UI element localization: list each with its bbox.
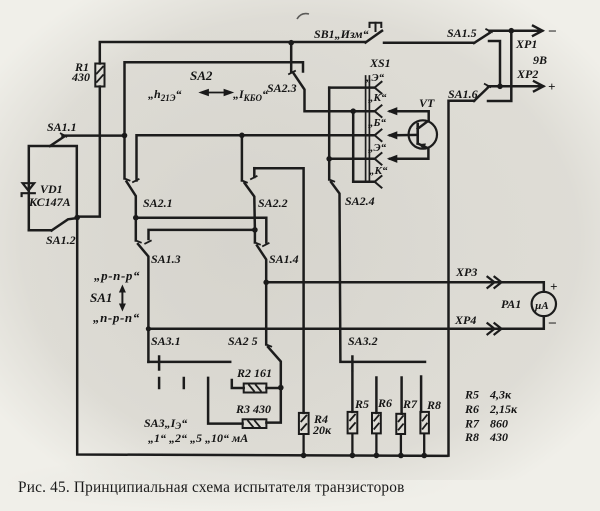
svg-text:R2 161: R2 161 bbox=[236, 366, 272, 380]
svg-text:ХР1: ХР1 bbox=[515, 37, 537, 51]
svg-text:R7: R7 bbox=[464, 417, 480, 431]
svg-text:XS1: XS1 bbox=[369, 56, 391, 70]
svg-text:SA1.4: SA1.4 bbox=[269, 252, 299, 266]
svg-text:SA3.1: SA3.1 bbox=[151, 334, 181, 348]
svg-text:„п-р-п“: „п-р-п“ bbox=[93, 310, 140, 325]
svg-text:R3 430: R3 430 bbox=[235, 402, 271, 416]
svg-text:SA3„IЭ“: SA3„IЭ“ bbox=[144, 416, 187, 431]
svg-text:„1“ „2“ „5 „10“ мА: „1“ „2“ „5 „10“ мА bbox=[148, 431, 248, 445]
svg-text:SA2.3: SA2.3 bbox=[267, 81, 297, 95]
svg-text:R8: R8 bbox=[426, 398, 441, 412]
svg-text:„р-п-р“: „р-п-р“ bbox=[94, 268, 140, 283]
svg-text:4,3к: 4,3к bbox=[489, 388, 512, 402]
svg-text:µА: µА bbox=[534, 300, 549, 312]
svg-text:R6: R6 bbox=[377, 396, 392, 410]
svg-text:SA1.1: SA1.1 bbox=[47, 120, 77, 134]
svg-text:КС147А: КС147А bbox=[28, 195, 71, 209]
svg-text:VD1: VD1 bbox=[40, 182, 63, 196]
svg-text:SA1.3: SA1.3 bbox=[151, 252, 181, 266]
svg-text:–: – bbox=[548, 23, 556, 38]
svg-text:860: 860 bbox=[490, 417, 508, 431]
svg-text:SA1.5: SA1.5 bbox=[447, 26, 477, 40]
svg-text:SA2.4: SA2.4 bbox=[345, 194, 375, 208]
svg-text:„Э“: „Э“ bbox=[368, 142, 387, 154]
svg-text:ХР2: ХР2 bbox=[516, 67, 538, 81]
svg-text:9В: 9В bbox=[533, 53, 547, 67]
svg-text:Рис. 45. Принципиальная схема: Рис. 45. Принципиальная схема испытателя… bbox=[18, 479, 405, 496]
svg-text:2,15к: 2,15к bbox=[489, 402, 518, 416]
svg-text:ХР3: ХР3 bbox=[455, 265, 477, 279]
svg-text:ХР4: ХР4 bbox=[454, 313, 476, 327]
svg-text:R6: R6 bbox=[464, 402, 479, 416]
svg-text:SA2.1: SA2.1 bbox=[143, 196, 173, 210]
svg-text:„Б“: „Б“ bbox=[368, 117, 386, 129]
svg-text:SA2.2: SA2.2 bbox=[258, 196, 288, 210]
svg-text:SA3.2: SA3.2 bbox=[348, 334, 378, 348]
svg-text:–: – bbox=[548, 315, 556, 330]
svg-text:РА1: РА1 bbox=[501, 297, 521, 311]
svg-text:„К“: „К“ bbox=[368, 92, 387, 104]
svg-text:SA2 5: SA2 5 bbox=[228, 334, 258, 348]
svg-text:SA2: SA2 bbox=[190, 68, 213, 83]
svg-text:VT: VT bbox=[419, 96, 435, 110]
svg-text:„К“: „К“ bbox=[369, 165, 388, 177]
svg-text:+: + bbox=[550, 279, 557, 294]
svg-text:R8: R8 bbox=[464, 430, 479, 444]
svg-text:R5: R5 bbox=[354, 397, 369, 411]
svg-text:430: 430 bbox=[71, 70, 90, 84]
svg-text:SA1.2: SA1.2 bbox=[46, 233, 76, 247]
svg-text:SB1„Изм“: SB1„Изм“ bbox=[314, 27, 369, 41]
svg-text:SA1.6: SA1.6 bbox=[448, 87, 478, 101]
svg-text:„Э“: „Э“ bbox=[366, 72, 385, 84]
svg-text:20к: 20к bbox=[312, 423, 332, 437]
svg-text:R7: R7 bbox=[402, 397, 418, 411]
svg-text:R5: R5 bbox=[464, 388, 479, 402]
svg-text:SA1: SA1 bbox=[90, 290, 112, 305]
svg-text:+: + bbox=[548, 79, 555, 94]
svg-text:430: 430 bbox=[489, 430, 508, 444]
